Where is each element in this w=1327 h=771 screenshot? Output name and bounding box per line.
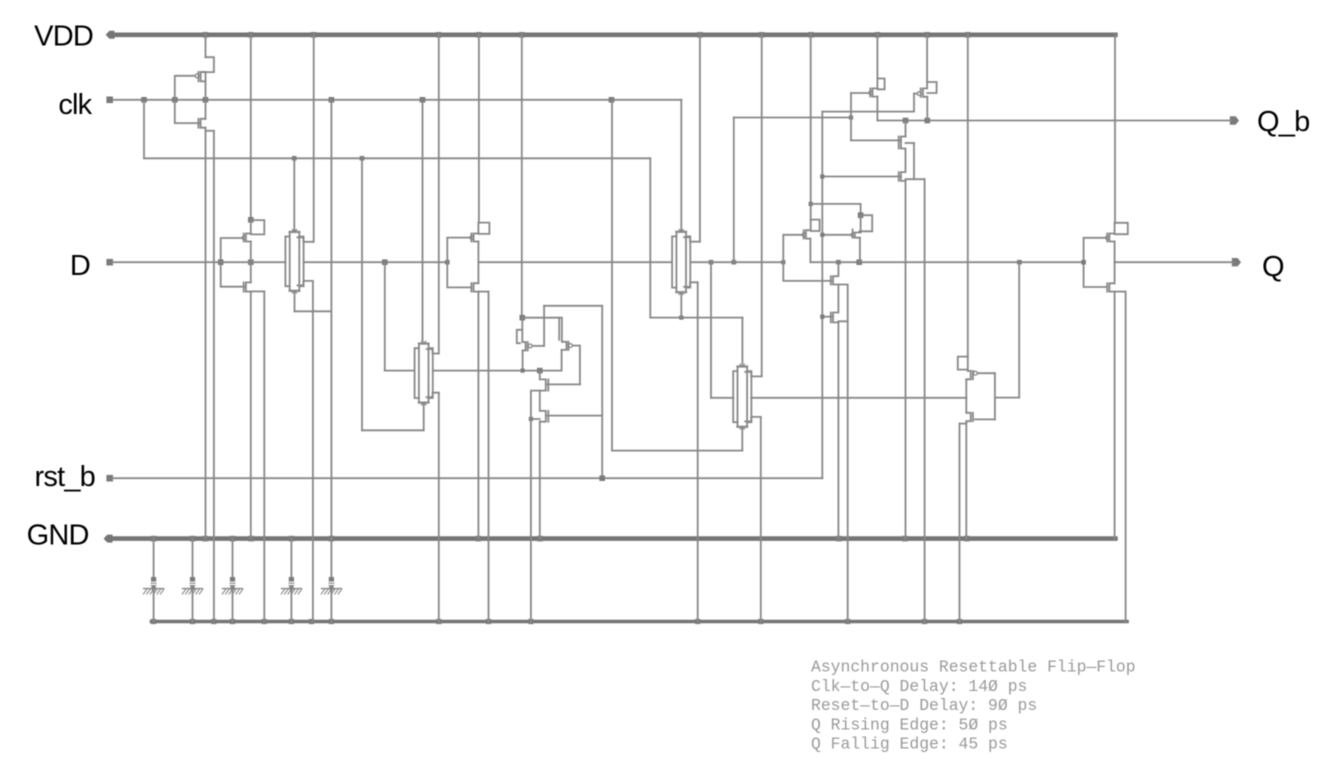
transistor Q2 NMOS [205,100,207,119]
node H2 source tee [925,118,931,124]
wire J2 source to GND [965,421,967,538]
VDD power rail [110,32,1115,37]
wire Q2 body to substrate [213,131,215,622]
wire VDD drop to H1 [876,35,878,79]
wire E3 source to GND [539,422,541,539]
wire VDD drop to D tab [438,35,440,354]
gate loop Q3/Q4 [221,238,244,287]
substrate rail junction x=291.4 [289,619,294,624]
substrate rail junction x=213.9 [211,619,216,624]
wire I drain bus [811,203,861,205]
VDD junction x=438.8 [436,32,442,38]
transistor I1 PMOS [810,220,812,231]
port Q_b pin [1230,116,1239,124]
gate loop Q1/Q2 [175,76,199,123]
transistor K2 NMOS [1114,262,1116,283]
gate loop K [1084,238,1106,287]
node rst gate2 tee [820,174,824,178]
substrate rail [152,620,1128,624]
wire H3 body to substrate [924,179,926,621]
VDD junction x=811 [808,32,814,38]
wire J row tee [995,397,1019,399]
GND power rail [108,536,1116,541]
transistor E3 body loop [531,391,540,419]
substrate rail junction x=847.7 [845,619,850,624]
wire rst_b row [113,477,822,479]
wire D body to substrate [438,393,440,622]
pass gate B top gate tab [297,237,313,242]
wire VDD end drop to K [1114,35,1116,223]
svg-text:Asynchronous Resettable Flip—F: Asynchronous Resettable Flip—Flop [811,658,1136,677]
GND junction x=966.8 [964,536,970,542]
ground symbol 5 [330,539,332,577]
transistor H1 PMOS [876,79,878,89]
transistor Q1 PMOS [201,72,206,81]
wire H2 gate drop [913,94,915,112]
transistor J1 PMOS [967,357,969,371]
wire E3 body to substrate [530,419,532,622]
wire row397 right [751,397,966,399]
ground symbol 3 [232,539,234,577]
transistor Q3 PMOS [250,220,252,234]
transistor E1 PMOS tab [517,330,523,343]
GND junction x=232.5 [230,536,236,542]
wire I3 gate2 wire [822,316,833,318]
substrate rail junction x=331.4 [329,619,334,624]
wire H gates bus [734,117,851,119]
port clk pin [106,97,113,104]
wire I3 source to GND [837,322,839,538]
wire barrel G bottom [741,427,743,450]
wire J1 gate wire [977,372,995,374]
svg-text:D: D [70,250,90,282]
VDD junction x=478.9 [476,32,482,38]
wire D row F to I [692,261,784,263]
transistor K1 PMOS tab [1115,223,1128,234]
wire clk row to barrel F [680,100,682,230]
node I2 source tee [856,259,862,265]
VDD junction x=877.5 [875,32,881,38]
node Q3 drain [248,217,254,223]
node inverter D output [248,259,254,265]
transistor E1 PMOS [521,318,523,342]
wire Q2 source to GND [205,128,207,539]
wire F body to substrate [697,282,699,621]
transistor J2 NMOS [966,413,970,421]
VDD junction x=250.8 [248,32,254,38]
transistor K2 body tab [1115,291,1126,293]
node barrel B top tee [292,156,297,161]
pass gate F bottom tab [684,282,698,287]
node E stair drain [537,368,543,374]
node H3 drain tee [903,118,909,124]
wire I2 gate wire [822,234,851,236]
node clk-gnd tap [329,97,335,103]
wire I2 source [859,238,861,263]
transistor E2 PMOS [562,342,567,350]
wire J1 source [965,379,967,413]
wire VDD drop to B tab [313,35,315,242]
VDD junction x=761.7 [759,32,765,38]
wire Q feedback drop [1018,262,1020,397]
GND junction x=153.6 [151,536,157,542]
wire H3 gate2 wire [822,176,901,178]
wire VDD drop to E [521,35,523,318]
svg-text:Reset—to—D Delay: 9Ø ps: Reset—to—D Delay: 9Ø ps [811,696,1037,715]
svg-text:Q: Q [1262,251,1284,283]
wire H gates riser [733,118,735,263]
GND junction x=331.4 [329,536,335,542]
transistor Q4 NMOS [250,262,252,282]
substrate rail junction x=438.8 [436,619,441,624]
node F bottom tee [679,316,683,320]
wire h430 to barrel D bottom [362,429,424,431]
GND junction x=478.3 [476,536,482,542]
wire B body to substrate [312,281,314,622]
transistor H2 PMOS tab [927,82,937,93]
wire E2 source [561,350,563,371]
transistor H1 PMOS tab [877,79,884,90]
wire E drain bus [522,317,560,319]
wire I2 drain drop [860,204,862,215]
pass gate G bottom tab [745,417,761,422]
wire rst riser E [601,306,603,478]
wire stackD gate drop [384,262,386,370]
ground symbol 1 [153,539,155,577]
transistor E3 NMOS stack [540,371,546,422]
transistor C NMOS [477,262,479,283]
transistor Q4 body tab [251,290,264,292]
pass gate F top tab [684,237,700,242]
substrate rail junction x=760.8 [758,619,763,624]
node I2 drain [858,212,864,218]
substrate rail junction x=924.5 [922,619,927,624]
wire clk drop x612 [611,100,613,451]
pass gate G top tab [745,372,762,377]
wire barrel F bottom [680,293,682,318]
ground symbol 4 [290,539,292,577]
wire clk-gnd vertical [330,100,332,539]
wire J2 gate wire [975,418,995,420]
wire VDD drop to I1 [810,35,812,220]
pass gate B bottom gate tab [297,281,313,286]
node rst I2 tee [820,233,824,237]
wire h317 to barrel G top [741,318,743,364]
wire VDD drop to F tab [699,35,701,242]
wire J2 body to substrate [959,424,961,622]
wire H2 gate bus [822,111,914,113]
transistor I2 PMOS tab [859,215,872,231]
wire row158 end drop [649,158,651,317]
GND junction x=291.4 [289,536,295,542]
GND junction x=904.9 [902,536,908,542]
node barrel D top [420,97,426,103]
wire K2 source to GND [1114,292,1116,539]
wire D row C to F [478,261,672,263]
substrate rail junction x=153.6 [151,619,156,624]
GND junction x=838.9 [836,536,842,542]
wire B bottom jog [295,310,331,312]
transistor Q2 body tab [206,130,214,132]
wire H3 source to GND [905,181,907,539]
svg-text:rst_b: rst_b [35,461,95,493]
gate loop C [447,238,471,288]
wire clk row [113,99,681,101]
node I3 drain tee [836,260,841,265]
wire VDD drop to H2 [926,35,928,82]
node H gates tee [732,260,737,265]
wire Q3 source to output [250,242,252,263]
node D gate loop tee [218,259,224,265]
wire Q output [1115,261,1233,263]
node I1 drain tee [809,202,813,206]
gate loop H [850,93,852,140]
wire clk to row158 [143,100,145,159]
node E pullup [520,315,526,321]
wire VDD drop to C [478,35,480,223]
svg-text:Clk—to—Q Delay: 14Ø ps: Clk—to—Q Delay: 14Ø ps [811,677,1027,696]
wire h317 clkb [650,317,742,319]
wire K source to output [1114,242,1116,263]
node stackD gate tee [382,259,388,265]
substrate rail junction x=311.5 [309,619,314,624]
wire E right drain pair [558,318,560,340]
node G mid tee [709,260,714,265]
wire VDD drop to Q1 [205,35,207,57]
wire Q internal row [810,261,1083,263]
svg-text:Q Fallig Edge: 45 ps: Q Fallig Edge: 45 ps [811,735,1008,754]
transistor Q1 PMOS body tab [202,57,214,72]
transistor I3 body loop [838,285,847,322]
wire VDD drop to G tab [761,35,763,377]
wire rst riser right [821,112,823,479]
VDD junction x=927.2 [924,32,930,38]
wire E3 gate2 wire [546,415,602,417]
node Q feedback tee [1017,260,1022,265]
wire H2 source [926,97,928,121]
wire E2 gate loop [579,346,581,385]
VDD junction x=205.4 [203,32,209,38]
transistor C body tab [479,291,489,293]
transistor H2 PMOS [926,82,928,88]
substrate rail junction x=697.7 [695,619,700,624]
wire I1 source [809,239,811,263]
wire D to inverter [113,261,285,263]
transistor J2 body tab [960,423,967,425]
ground symbol 2 [192,539,194,577]
node I loop tee [781,260,785,264]
node rst I3 tee [820,315,824,319]
transistor I3 NMOS stack [833,262,838,322]
node clk gate loop [172,97,178,103]
GND junction x=540 [537,536,543,542]
port Q pin [1232,258,1241,266]
wire row370 left [385,370,415,372]
transistor C PMOS body tab [478,223,489,234]
wire row158 [144,157,650,159]
wire E2 gate wire [572,345,580,347]
VDD junction x=521.8 [519,32,525,38]
wire Q_b row [877,120,1231,122]
substrate rail junction x=488.5 [486,619,491,624]
substrate rail junction x=232.5 [230,619,235,624]
node row158 drop [360,156,365,161]
node H gate loop tee [849,115,853,119]
wire H2 gate wire [914,93,917,95]
node inverter A output [203,97,209,103]
substrate rail junction x=264.3 [262,619,267,624]
wire barrel D bottom [423,403,425,430]
substrate rail junction x=192.5 [190,619,195,624]
pass gate B [292,230,296,232]
wire E1 gate riser [543,306,545,346]
wire D row B to C [304,261,448,263]
node rst tee E [599,475,605,481]
transistor I2 PMOS [860,215,862,232]
svg-text:VDD: VDD [34,21,93,53]
pass gate D bottom tab [427,393,439,398]
wire K2 body to substrate [1125,292,1127,622]
wire C body to substrate [488,292,490,622]
GND junction x=205.4 [203,536,209,542]
node E3 body [529,417,533,421]
wire G body to substrate [760,417,762,622]
VDD junction x=313.7 [311,32,317,38]
wire clk row to barrel D [422,100,424,342]
transistor C PMOS [477,223,479,234]
wire C source to output [477,242,479,263]
wire row397 left [711,397,733,399]
svg-text:clk: clk [58,89,92,121]
wire H1 source to Q_b [876,97,878,121]
svg-text:Q Rising Edge: 5Ø ps: Q Rising Edge: 5Ø ps [811,715,1008,734]
wire Q4 body to substrate [263,291,265,621]
wire h450 to barrel G bottom [612,450,742,452]
transistor J1 PMOS tab [958,357,968,370]
wire Q4 source to GND [250,292,252,539]
substrate rail junction x=530.9 [528,619,533,624]
pass gate F [679,230,683,232]
pass gate G [740,364,744,366]
transistor I1 PMOS tab [811,220,820,231]
wire row158 to barrel B [293,158,295,230]
transistor Q3 PMOS body tab [251,220,264,234]
transistor H3 body tab [906,142,915,144]
wire I3 body to substrate [847,321,849,621]
VDD junction x=699.9 [697,32,703,38]
pass gate D top tab [427,349,439,354]
gate loop J [994,373,996,419]
wire E gate bus top [544,305,602,307]
wire VDD drop to J [967,35,969,357]
port D pin [106,259,113,266]
transistor K1 PMOS [1114,223,1116,234]
substrate rail junction x=959.5 [957,619,962,624]
VDD junction x=967.8 [965,32,971,38]
wire C source to GND [477,292,479,539]
wire row370 right [433,370,562,372]
wire G mid drop [710,262,712,398]
wire E1 source [522,351,524,371]
GND junction x=192.5 [190,536,196,542]
wire VDD drop to Q3 [250,35,252,220]
node K loop tee [1081,260,1086,265]
node E1 source tee [521,369,525,373]
node C loop tee [445,260,450,265]
pass gate D [422,341,426,343]
node clk drop [609,97,615,103]
gate loop I [783,235,831,281]
svg-text:GND: GND [27,519,89,551]
wire barrel B bottom [294,291,296,311]
node clk loop tee [141,97,147,103]
wire E1 gate wire [532,345,544,347]
transistor H3 NMOS stack [905,121,907,137]
port rst_b pin [106,475,113,482]
svg-text:Q_b: Q_b [1257,106,1309,138]
GND junction x=251.1 [248,536,254,542]
wire row158 drop to h430 [361,158,363,430]
